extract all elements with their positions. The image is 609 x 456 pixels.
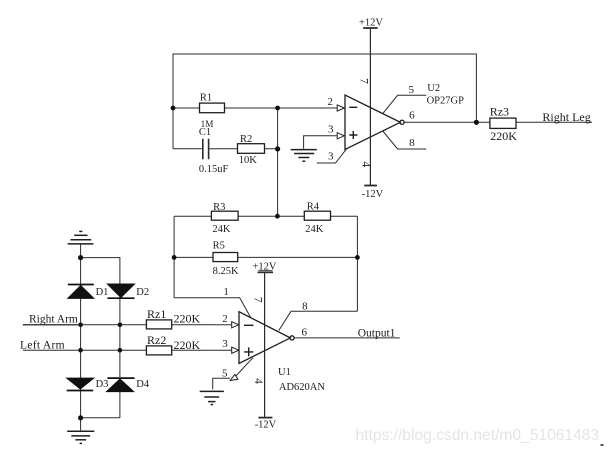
svg-text:Rz1: Rz1: [147, 307, 166, 321]
svg-text:U1: U1: [278, 367, 291, 378]
svg-text:C1: C1: [199, 127, 211, 138]
svg-text:D3: D3: [96, 379, 109, 390]
svg-text:R3: R3: [213, 202, 225, 213]
svg-text:OP27GP: OP27GP: [427, 95, 465, 106]
svg-text:Output1: Output1: [358, 328, 396, 340]
svg-text:5: 5: [222, 368, 228, 380]
svg-text:Right Leg: Right Leg: [542, 110, 590, 124]
svg-text:8: 8: [302, 301, 308, 313]
svg-text:220K: 220K: [174, 311, 201, 325]
svg-text:220K: 220K: [174, 338, 201, 352]
svg-text:AD620AN: AD620AN: [279, 382, 325, 393]
svg-text:24K: 24K: [212, 224, 231, 235]
svg-text:2: 2: [222, 313, 228, 325]
svg-text:+12V: +12V: [253, 261, 277, 272]
svg-text:D2: D2: [136, 287, 149, 298]
svg-text:1: 1: [223, 286, 229, 298]
svg-text:4: 4: [359, 161, 371, 167]
svg-text:-12V: -12V: [255, 419, 277, 430]
svg-text:Left Arm: Left Arm: [20, 340, 65, 352]
svg-text:7: 7: [252, 297, 264, 303]
svg-text:6: 6: [409, 110, 415, 122]
svg-text:R4: R4: [307, 201, 320, 212]
svg-text:7: 7: [358, 78, 370, 84]
svg-text:4: 4: [252, 378, 264, 384]
svg-text:https://blog.csdn.net/m0_51061: https://blog.csdn.net/m0_51061483: [356, 427, 600, 444]
svg-text:220K: 220K: [490, 129, 517, 143]
svg-text:Rz2: Rz2: [147, 333, 166, 347]
svg-text:5: 5: [409, 84, 415, 96]
svg-text:R1: R1: [200, 92, 212, 103]
svg-text:8: 8: [409, 137, 415, 149]
svg-text:2: 2: [327, 96, 333, 108]
svg-text:3: 3: [222, 338, 228, 350]
svg-text:Rz3: Rz3: [490, 105, 509, 119]
svg-text:Right Arm: Right Arm: [29, 313, 78, 325]
svg-text:10K: 10K: [239, 155, 257, 166]
svg-text:0.15uF: 0.15uF: [199, 164, 229, 175]
svg-text:U2: U2: [427, 83, 440, 94]
svg-text:R5: R5: [213, 240, 225, 251]
svg-text:D4: D4: [136, 379, 150, 390]
svg-text:8.25K: 8.25K: [213, 266, 239, 277]
svg-text:+12V: +12V: [359, 17, 383, 28]
svg-text:D1: D1: [96, 287, 109, 298]
svg-text:3: 3: [328, 124, 334, 136]
svg-text:3: 3: [328, 150, 334, 162]
svg-text:6: 6: [302, 326, 308, 338]
svg-text:-12V: -12V: [362, 189, 384, 200]
svg-text:R2: R2: [240, 134, 252, 145]
svg-text:24K: 24K: [305, 224, 324, 235]
